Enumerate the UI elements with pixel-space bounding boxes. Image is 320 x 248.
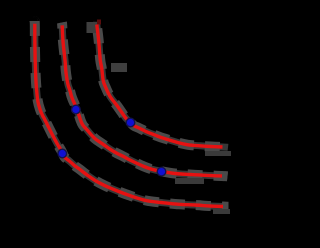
artifact band below I3 tail [205, 151, 231, 156]
point on I2 lower (blue marker) [158, 168, 165, 175]
dark tip above I3 start [97, 20, 101, 25]
jpeg artifact halo along curve I3 [97, 22, 229, 148]
indifference curve I3 (red) [97, 25, 223, 148]
point on I1 (blue marker) [59, 150, 66, 157]
artifact block left of I3 top [87, 22, 98, 33]
point on I3: halo [126, 118, 136, 128]
jpeg artifact halo along curve I2 [62, 23, 228, 177]
point on I2 upper: halo [71, 105, 81, 115]
point on I2 upper (blue marker) [72, 106, 79, 113]
artifact block right of I3 [111, 63, 127, 72]
indifference curve I1 (red) [35, 24, 223, 207]
artifact band below I2 tail [175, 178, 204, 184]
artifact band below I1 tail end [213, 209, 230, 214]
jpeg artifact halo along curve I1 [35, 21, 229, 207]
point on I2 lower: halo [157, 167, 167, 177]
point on I1: halo [57, 149, 67, 159]
indifference curve I2 (red) [62, 25, 222, 176]
point on I3 (blue marker) [127, 119, 134, 126]
